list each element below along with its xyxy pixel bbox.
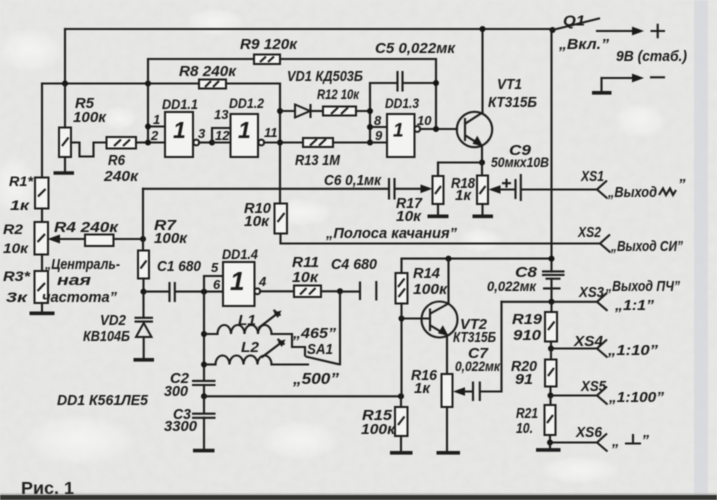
svg-text:„1:100”: „1:100”	[608, 389, 665, 406]
wire feedback long	[204, 395, 401, 397]
capacitor C1	[144, 291, 169, 293]
wire rail y83	[42, 82, 199, 84]
resistor R2 (pot)	[35, 222, 49, 255]
connector XS2	[600, 235, 611, 253]
resistor R16 (pot)	[442, 374, 453, 407]
inductor L2	[204, 363, 216, 365]
svg-text:1к: 1к	[10, 197, 30, 213]
svg-text:1: 1	[153, 112, 160, 127]
wire vertical x370	[369, 83, 371, 143]
svg-text:0,022мк: 0,022мк	[487, 278, 537, 294]
switch SA1 contact step	[292, 334, 305, 356]
wire vertical x280	[279, 84, 281, 204]
node DD1.1 vertical on rail	[145, 81, 151, 87]
svg-text:VT1: VT1	[497, 76, 522, 93]
svg-text:R3*: R3*	[3, 268, 31, 284]
node VD1	[277, 108, 283, 114]
resistor R3	[35, 271, 49, 303]
connector XS4	[597, 340, 608, 358]
op-gate DD1.4	[223, 262, 255, 306]
svg-text:12: 12	[215, 128, 230, 143]
wire vertical x204 tank	[203, 292, 205, 380]
inductor L1	[204, 333, 218, 335]
ground below R18	[473, 215, 494, 219]
capacitor C5	[370, 82, 396, 84]
capacitor C6	[142, 189, 144, 239]
switch SA1 blade	[306, 357, 340, 365]
ground below C3	[193, 449, 215, 453]
svg-text:”: ”	[642, 432, 650, 449]
capacitor C3	[203, 396, 205, 413]
svg-text:XS5: XS5	[580, 378, 606, 395]
capacitor C7 with wiper arrow	[453, 387, 465, 396]
svg-text:КТ315Б: КТ315Б	[453, 329, 496, 346]
svg-text:10к: 10к	[292, 269, 319, 286]
svg-text:R1*: R1*	[9, 173, 34, 189]
ground below R21	[549, 443, 551, 449]
node R11/C4/SA1	[337, 288, 343, 294]
node XS4	[548, 346, 554, 352]
diode VD1	[280, 110, 295, 112]
resistor R9	[148, 58, 254, 60]
wire R17/R18 top	[438, 161, 482, 163]
capacitor C4	[340, 291, 359, 293]
svg-text:XS2: XS2	[577, 224, 601, 241]
right edge scan band	[694, 0, 708, 500]
svg-text:100к: 100к	[73, 109, 107, 126]
svg-text:240к: 240к	[103, 168, 139, 185]
svg-text:XS6: XS6	[575, 424, 603, 441]
adjust arrow L1	[259, 313, 279, 328]
svg-text:3: 3	[198, 126, 206, 141]
svg-text:R2: R2	[3, 221, 23, 237]
capacitor C9 polarized	[489, 185, 501, 194]
resistor R4	[48, 235, 61, 244]
svg-text:1к: 1к	[455, 187, 472, 204]
wire pin13 stub	[212, 128, 231, 143]
svg-text:100к: 100к	[361, 421, 396, 438]
svg-text:С6 0,1мк: С6 0,1мк	[324, 172, 382, 189]
resistor R11	[260, 290, 294, 292]
svg-text:DD1.2: DD1.2	[229, 95, 264, 111]
wire R5-R6 jog	[71, 143, 107, 157]
resistor R14	[396, 273, 408, 304]
bottom dark scan band	[0, 495, 717, 500]
node R4/R7/C6	[140, 236, 146, 242]
switch Q1 blade	[553, 19, 600, 31]
resistor R17 (pot)	[433, 176, 444, 204]
wire rail drop to R5 node	[64, 29, 66, 84]
ground below R15	[390, 451, 413, 455]
node C1/VD2	[141, 289, 147, 295]
resistor R13	[280, 141, 303, 143]
wire left vertical	[41, 84, 43, 178]
resistor R20	[550, 349, 552, 360]
svg-text:R4 240к: R4 240к	[54, 219, 120, 236]
wire R10 to XS2	[281, 234, 601, 244]
svg-text:13: 13	[214, 107, 229, 122]
svg-text:DD1.4: DD1.4	[222, 246, 258, 262]
svg-text:R9 120к: R9 120к	[240, 36, 298, 53]
svg-text:„500”: „500”	[292, 371, 339, 388]
svg-text:300: 300	[164, 383, 189, 400]
op-gate DD1.2	[231, 114, 259, 157]
svg-text:ная: ная	[57, 272, 91, 289]
wire top supply rail	[65, 28, 553, 30]
svg-text:VD2: VD2	[100, 312, 127, 329]
node R5 top	[62, 81, 68, 87]
svg-text:1: 1	[393, 121, 404, 142]
node XS5	[548, 393, 554, 399]
svg-text:R13 1М: R13 1М	[295, 152, 340, 169]
svg-text:„Выход ПЧ”: „Выход ПЧ”	[605, 278, 680, 295]
svg-text:„1:1”: „1:1”	[614, 297, 655, 314]
svg-text:9В (стаб.): 9В (стаб.)	[616, 48, 687, 65]
svg-text:1: 1	[173, 117, 186, 143]
resistor R12	[323, 107, 356, 116]
svg-text:„Вкл.”: „Вкл.”	[558, 36, 610, 53]
resistor R10	[275, 204, 288, 234]
ground below R5	[54, 171, 75, 175]
svg-text:10к: 10к	[3, 240, 29, 256]
svg-text:910: 910	[513, 327, 542, 344]
transistor VT1	[457, 112, 492, 147]
transistor VT2	[402, 317, 431, 319]
resistor R18 (pot)	[481, 163, 483, 176]
svg-text:R12 10к: R12 10к	[317, 86, 360, 102]
varicap VD2	[142, 292, 144, 317]
wire to XS3	[552, 301, 598, 303]
svg-text:11: 11	[264, 125, 278, 140]
svg-text:DD1 К561ЛЕ5: DD1 К561ЛЕ5	[57, 392, 149, 409]
svg-text:XS4: XS4	[573, 333, 604, 350]
svg-text:2: 2	[150, 128, 159, 143]
svg-text:„Централь-: „Централь-	[44, 256, 120, 273]
svg-text:„Выход СИ”: „Выход СИ”	[610, 238, 683, 255]
svg-text:„465”: „465”	[292, 325, 337, 342]
svg-text:1: 1	[230, 266, 244, 296]
svg-text:Рис. 1: Рис. 1	[21, 478, 74, 498]
svg-text:„1:10”: „1:10”	[607, 342, 659, 359]
svg-text:R8 240к: R8 240к	[179, 63, 237, 80]
wire SA1 common up	[339, 291, 341, 364]
ground below R17	[428, 215, 449, 219]
node pin11	[277, 140, 283, 146]
node top rail / Q1	[550, 27, 556, 33]
minus sign	[650, 76, 665, 78]
wire R2-R3	[41, 255, 43, 272]
resistor R15	[400, 396, 402, 407]
resistor R21	[549, 396, 551, 406]
svg-text:„: „	[611, 433, 620, 450]
op-gate DD1.3	[387, 114, 415, 157]
op-gate DD1.1	[165, 112, 193, 157]
svg-text:R6: R6	[108, 152, 126, 169]
svg-text:10к: 10к	[396, 208, 422, 225]
ground below R16	[437, 451, 461, 455]
svg-text:3к: 3к	[6, 289, 28, 305]
wire plus arrow	[597, 30, 634, 32]
resistor R6	[107, 137, 137, 149]
wire minus arrow	[602, 77, 635, 79]
wire DD1.3 out to VT1 base	[420, 128, 457, 130]
svg-text:1: 1	[238, 117, 251, 143]
resistor R5	[59, 128, 71, 158]
plus sign	[651, 24, 666, 38]
wire main vertical from Q1 node	[550, 30, 552, 272]
svg-text:10.: 10.	[516, 420, 533, 437]
svg-text:8: 8	[374, 113, 382, 128]
svg-text:10: 10	[417, 113, 432, 128]
svg-text:10к: 10к	[244, 213, 270, 230]
svg-text:КВ104Б: КВ104Б	[83, 328, 130, 345]
svg-text:3300: 3300	[164, 418, 198, 435]
wire DD1.1 out	[199, 141, 212, 143]
svg-text:”: ”	[678, 176, 686, 193]
svg-text:50мкх10В: 50мкх10В	[491, 154, 549, 170]
node XS3	[549, 299, 555, 305]
wire pin8 stub	[370, 126, 387, 128]
svg-text:КТ315Б: КТ315Б	[488, 94, 537, 111]
svg-text:„Полоса качания”: „Полоса качания”	[325, 225, 457, 242]
node DD1.4 input	[201, 289, 207, 295]
wire pin5 stub	[204, 276, 223, 292]
svg-text:XS3: XS3	[578, 284, 604, 301]
svg-text:частота”: частота”	[42, 289, 117, 306]
wire supply rail VT2	[402, 258, 552, 260]
svg-text:0,022мк: 0,022мк	[455, 358, 501, 374]
node XS6	[547, 440, 553, 446]
resistor R7	[142, 239, 144, 251]
waveform squiggle	[659, 189, 676, 196]
ground below VD2	[134, 358, 155, 362]
minus stub ground	[600, 78, 602, 93]
svg-text:L1: L1	[238, 312, 256, 329]
svg-text:100к: 100к	[154, 230, 188, 247]
svg-text:4: 4	[258, 274, 267, 289]
connector XS5	[597, 387, 608, 405]
node C2/C3	[201, 393, 207, 399]
svg-text:„Выход: „Выход	[607, 184, 657, 201]
wire R1-R2	[41, 209, 43, 223]
resistor R19	[550, 302, 552, 312]
wire C9 to XS1	[522, 188, 597, 190]
svg-text:R19: R19	[512, 311, 543, 328]
connector XS6	[597, 434, 608, 452]
connector XS3	[597, 293, 608, 311]
scan white blotches	[0, 28, 64, 72]
svg-text:1к: 1к	[414, 380, 431, 397]
svg-text:XS1: XS1	[580, 168, 604, 185]
svg-text:DD1.3: DD1.3	[385, 95, 419, 111]
wire DD1.1 input vertical	[147, 59, 149, 143]
svg-text:С5 0,022мк: С5 0,022мк	[375, 40, 456, 57]
wire VT2 base vertical	[400, 319, 402, 397]
svg-text:R14: R14	[413, 265, 441, 282]
resistor R8	[199, 80, 226, 89]
capacitor C2	[192, 381, 216, 385]
svg-text:100к: 100к	[413, 281, 448, 298]
svg-text:С1 680: С1 680	[157, 258, 202, 275]
svg-text:DD1.1: DD1.1	[162, 96, 198, 112]
adjust arrow L2	[262, 342, 283, 358]
ground below R3	[41, 303, 43, 312]
resistor R1	[35, 178, 49, 209]
svg-text:SA1: SA1	[307, 341, 333, 358]
svg-text:9: 9	[375, 128, 383, 143]
svg-text:С4 680: С4 680	[331, 256, 378, 273]
svg-text:L2: L2	[241, 339, 260, 356]
svg-text:5: 5	[211, 260, 219, 275]
capacitor C8	[542, 270, 565, 272]
svg-text:91: 91	[515, 371, 533, 388]
connector XS1	[597, 181, 608, 199]
svg-text:VD1 КД503Б: VD1 КД503Б	[287, 68, 363, 85]
node R15/base vertical	[398, 393, 404, 399]
svg-text:Q1: Q1	[563, 13, 585, 30]
svg-text:6: 6	[213, 277, 221, 292]
